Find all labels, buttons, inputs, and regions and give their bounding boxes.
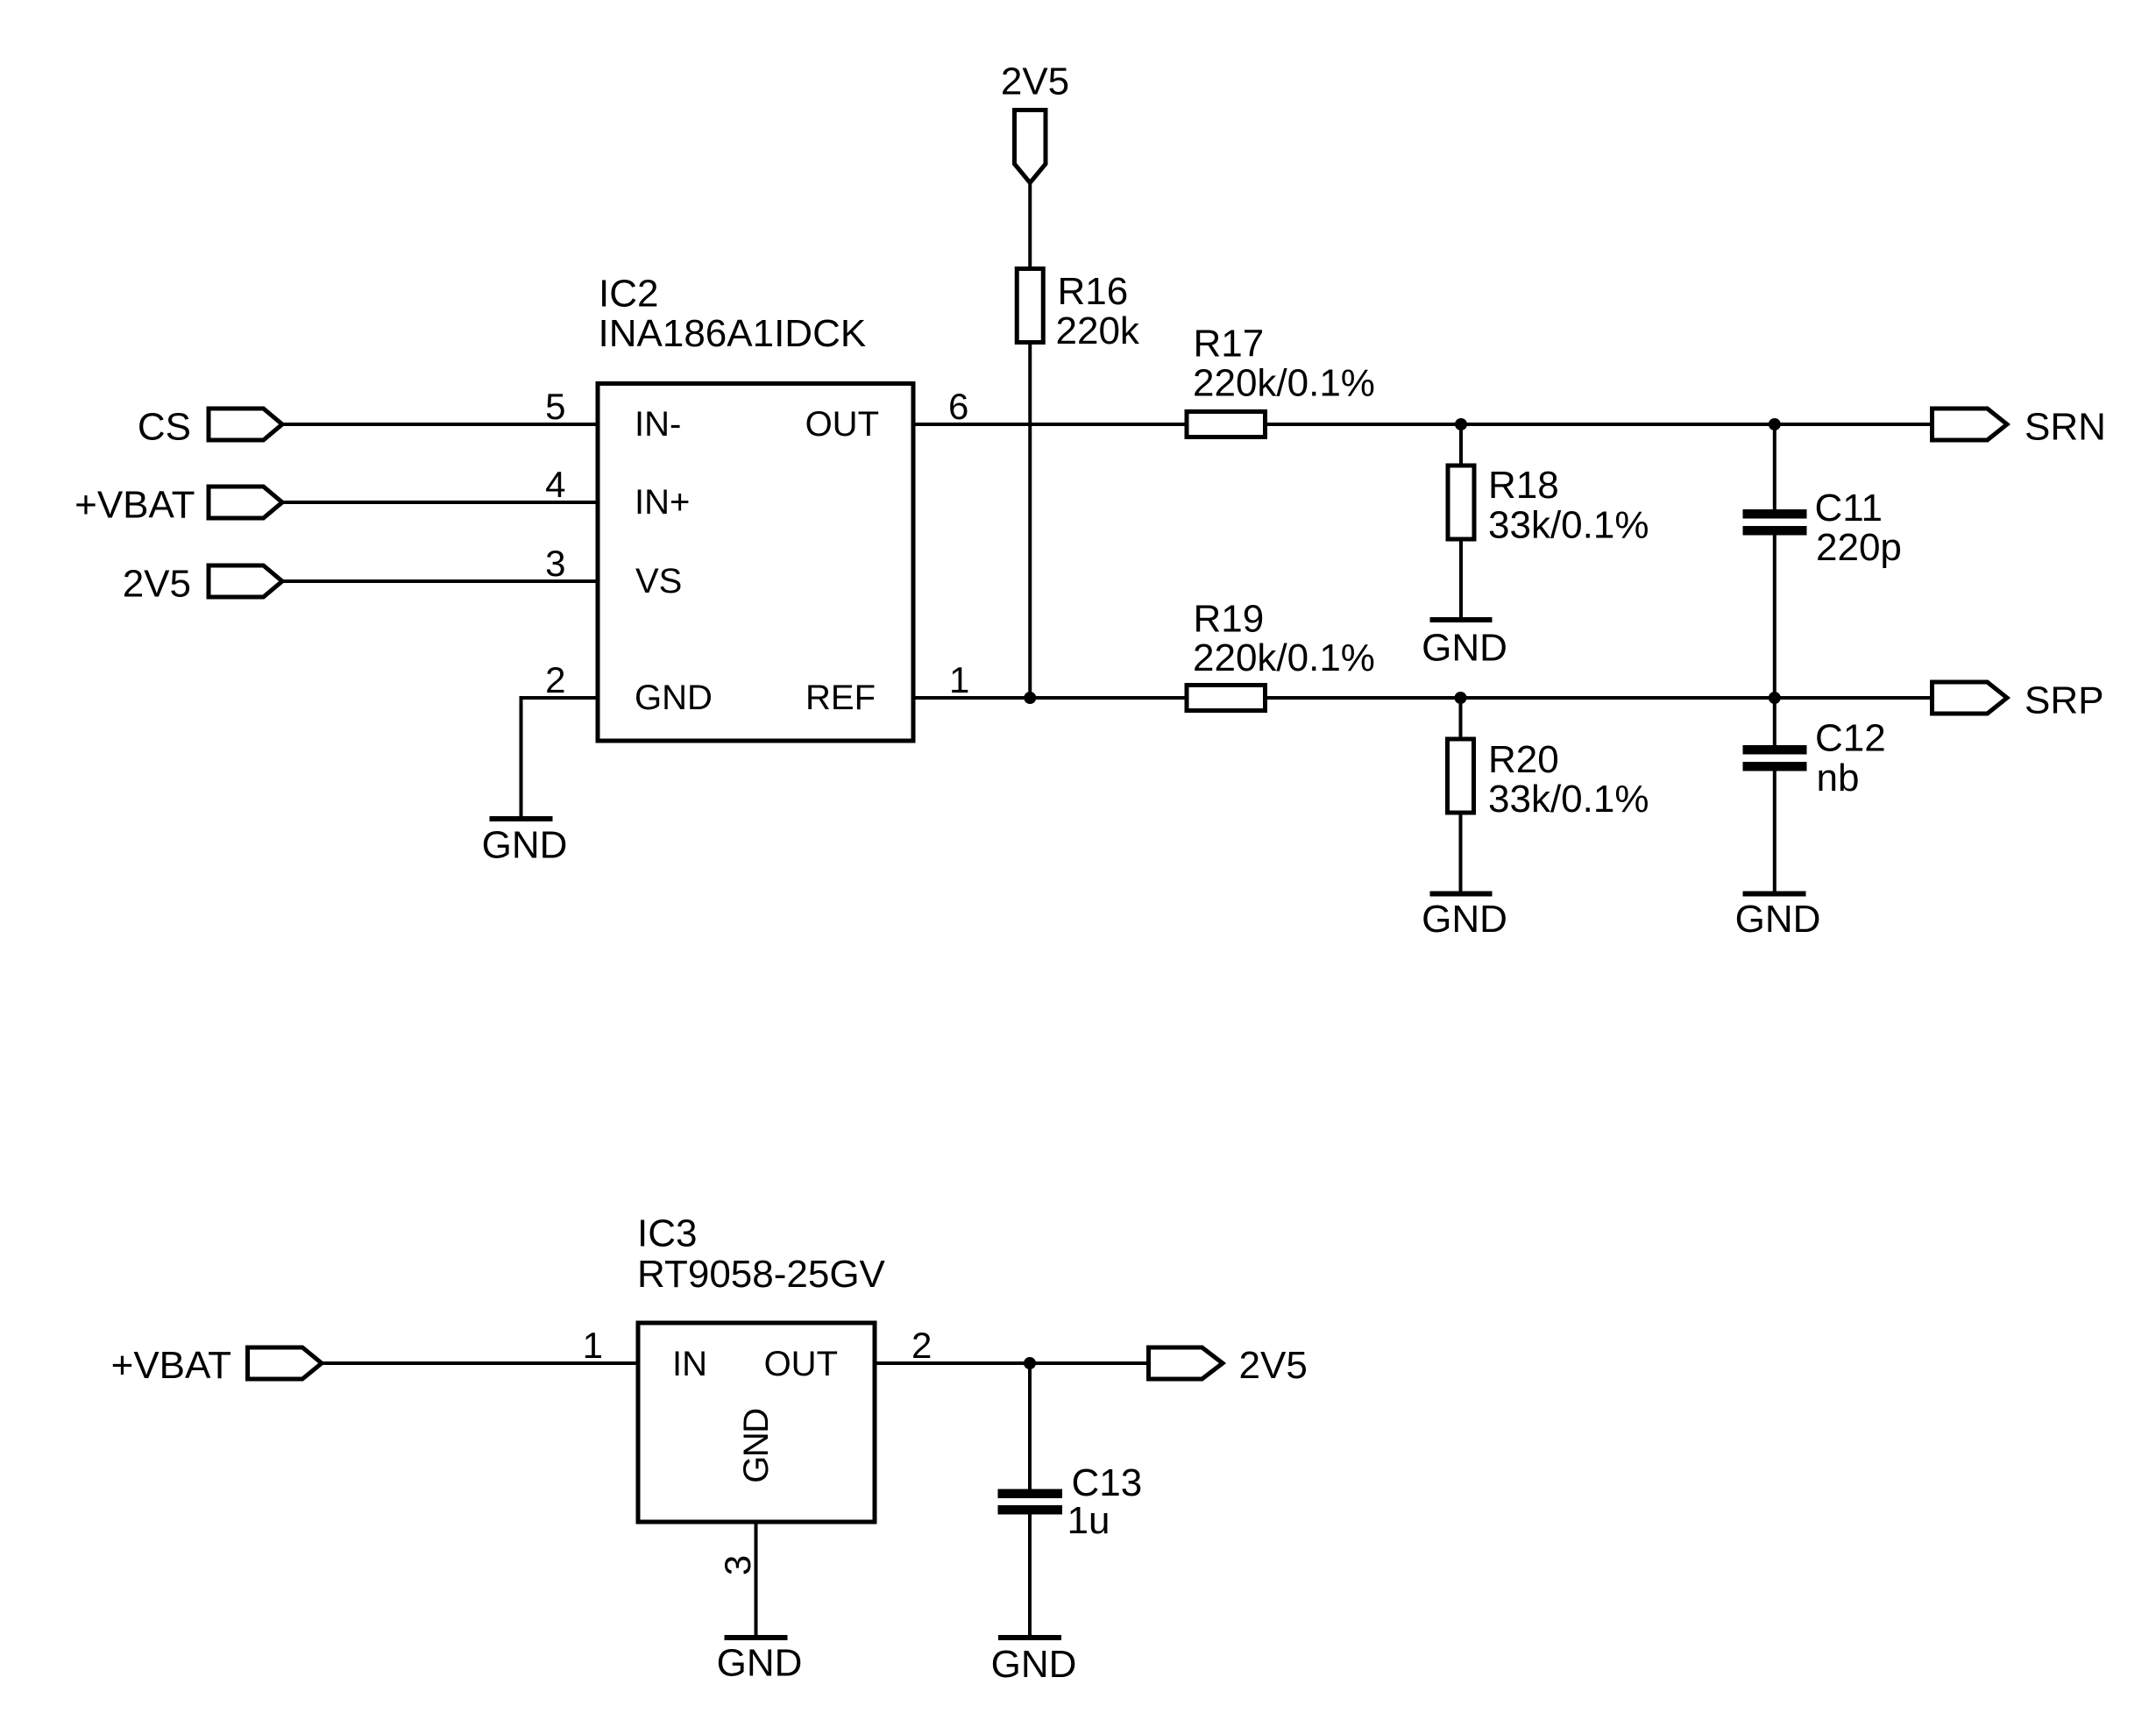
svg-text:GND: GND — [717, 1642, 803, 1685]
svg-text:2V5: 2V5 — [1239, 1344, 1308, 1387]
svg-text:220k/0.1%: 220k/0.1% — [1193, 636, 1375, 679]
ground (R18) — [1422, 620, 1507, 670]
svg-text:R17: R17 — [1194, 323, 1265, 366]
capacitor C12 — [1743, 717, 1886, 800]
connector flag CS — [138, 406, 282, 449]
wire C13 to GND — [1028, 1515, 1032, 1636]
node junction OUT/C13 — [1024, 1357, 1036, 1369]
svg-text:OUT: OUT — [805, 405, 879, 444]
svg-text:IN+: IN+ — [635, 483, 690, 522]
connector flag 2V5 (bottom right) — [1149, 1344, 1308, 1387]
capacitor C13 — [998, 1461, 1143, 1542]
svg-text:GND: GND — [482, 824, 568, 867]
resistor R20 — [1448, 738, 1649, 821]
wire to R20 — [1459, 698, 1463, 739]
svg-text:C13: C13 — [1072, 1461, 1143, 1504]
node junction SRN/R18 — [1455, 418, 1467, 430]
svg-text:GND: GND — [991, 1643, 1077, 1686]
op-amp IC2 INA186A1IDCK — [598, 273, 913, 742]
node junction SRP/C12 — [1769, 692, 1781, 704]
wire to C11 — [1773, 424, 1777, 509]
connector flag SRP — [1933, 679, 2104, 722]
power flag 2V5 (top) — [1001, 60, 1069, 183]
svg-text:2V5: 2V5 — [123, 563, 191, 606]
wire OUT to 2V5 flag — [875, 1361, 1149, 1365]
svg-text:IC3: IC3 — [637, 1212, 697, 1255]
svg-text:R18: R18 — [1488, 464, 1559, 507]
svg-text:GND: GND — [1422, 627, 1507, 670]
wire GND pin 2 — [521, 698, 599, 816]
wire REF to R19 — [913, 696, 1187, 700]
resistor R17 — [1187, 323, 1375, 437]
connector flag +VBAT (bottom) — [111, 1344, 322, 1387]
wire +VBAT to IN (IC3) — [322, 1361, 638, 1365]
svg-text:220k/0.1%: 220k/0.1% — [1193, 362, 1375, 405]
svg-text:IN-: IN- — [635, 405, 681, 444]
svg-text:220k: 220k — [1056, 309, 1140, 352]
svg-text:INA186A1IDCK: INA186A1IDCK — [599, 312, 867, 355]
wire +VBAT to IN+ — [282, 501, 598, 504]
svg-text:4: 4 — [545, 464, 565, 505]
wire OUT to R17 — [913, 423, 1187, 426]
wire R20 to GND — [1459, 814, 1463, 892]
svg-text:GND: GND — [737, 1409, 776, 1482]
wire to R18 — [1459, 424, 1463, 466]
capacitor C11 — [1743, 487, 1902, 569]
node junction R16/REF — [1024, 692, 1036, 704]
svg-text:33k/0.1%: 33k/0.1% — [1488, 778, 1649, 821]
wire R16 to REF net (crosses OUT line) — [1028, 343, 1032, 699]
svg-text:33k/0.1%: 33k/0.1% — [1488, 504, 1649, 547]
wire C12 to GND — [1773, 771, 1777, 892]
svg-text:R20: R20 — [1488, 738, 1559, 781]
wire R17 to SRN flag — [1266, 423, 1934, 426]
wire junction to C13 — [1028, 1363, 1032, 1489]
svg-text:3: 3 — [717, 1555, 758, 1575]
node junction SRN/C11 — [1769, 418, 1781, 430]
svg-text:SRN: SRN — [2025, 406, 2106, 449]
svg-text:6: 6 — [948, 386, 968, 427]
connector flag SRN — [1933, 406, 2106, 449]
svg-text:IC2: IC2 — [599, 273, 658, 316]
svg-text:1: 1 — [949, 659, 969, 700]
node junction SRP/R20 — [1455, 692, 1467, 704]
svg-text:RT9058-25GV: RT9058-25GV — [637, 1253, 886, 1296]
svg-text:R19: R19 — [1194, 598, 1265, 641]
wire R18 to GND — [1459, 539, 1463, 617]
ground (C12) — [1735, 894, 1821, 942]
svg-text:2: 2 — [545, 659, 565, 700]
svg-text:+VBAT: +VBAT — [111, 1344, 231, 1387]
svg-text:2: 2 — [911, 1325, 932, 1366]
svg-text:IN: IN — [672, 1345, 707, 1383]
svg-text:REF: REF — [805, 679, 876, 717]
wire CS to IN- — [282, 423, 598, 426]
resistor R18 — [1448, 464, 1649, 547]
wire R19 to SRP flag — [1266, 696, 1934, 700]
svg-text:1u: 1u — [1067, 1499, 1110, 1542]
svg-text:3: 3 — [545, 543, 565, 584]
wire 2V5 to R16 — [1028, 183, 1032, 269]
svg-text:220p: 220p — [1816, 526, 1902, 569]
svg-text:R16: R16 — [1058, 270, 1129, 313]
wire 2V5 to VS — [282, 579, 598, 583]
svg-text:+VBAT: +VBAT — [74, 484, 195, 527]
connector flag 2V5 (left) — [123, 563, 282, 606]
svg-text:GND: GND — [635, 679, 713, 717]
ground (R20) — [1422, 894, 1507, 942]
svg-text:SRP: SRP — [2025, 679, 2103, 722]
wire C11 to SRP net — [1773, 536, 1777, 699]
svg-text:GND: GND — [1735, 898, 1821, 941]
svg-text:VS: VS — [635, 562, 682, 601]
svg-text:OUT: OUT — [764, 1345, 838, 1383]
resistor R16 — [1017, 269, 1140, 353]
wire to C12 — [1773, 698, 1777, 745]
svg-text:CS: CS — [138, 406, 191, 449]
svg-text:C12: C12 — [1815, 717, 1886, 760]
connector flag +VBAT — [74, 484, 282, 527]
wire IC3 GND pin to ground — [755, 1522, 758, 1635]
regulator IC3 RT9058-25GV — [637, 1212, 886, 1523]
ground (IC3 pin 3) — [717, 1638, 803, 1685]
svg-text:C11: C11 — [1815, 487, 1883, 530]
resistor R19 — [1187, 598, 1375, 711]
svg-text:GND: GND — [1422, 898, 1507, 941]
ground (C13) — [991, 1638, 1077, 1686]
svg-text:nb: nb — [1817, 757, 1860, 800]
svg-text:5: 5 — [545, 386, 565, 427]
svg-text:2V5: 2V5 — [1001, 60, 1069, 103]
svg-text:1: 1 — [583, 1325, 603, 1366]
ground (IC2 pin2) — [482, 819, 568, 867]
